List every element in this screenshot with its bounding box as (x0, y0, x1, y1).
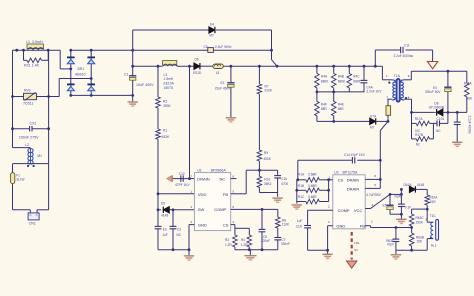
wire main vert x132 lower (132, 81, 134, 96)
wire R63B bot (411, 246, 413, 250)
capacitor C6 box (208, 48, 214, 53)
svg-text:68R: 68R (338, 107, 345, 111)
ground under C1 (127, 102, 137, 106)
wire cs gnd rail (235, 249, 278, 251)
wire R4 top (248, 228, 250, 235)
capacitor C2 (274, 238, 281, 240)
wire clamp vert (271, 30, 273, 60)
svg-text:3L1W: 3L1W (16, 178, 24, 182)
wire R7 top (258, 66, 260, 84)
svg-text:VDD: VDD (198, 192, 207, 197)
capacitor C104 (437, 120, 440, 126)
junction rail R4A (316, 65, 319, 68)
wire R1A right stub (319, 179, 328, 181)
resistor R7 (257, 84, 262, 94)
wire R1 gnd stem (296, 202, 298, 204)
op-amp U2 box (333, 175, 365, 229)
transformer T1C coil (431, 222, 433, 238)
wire VCC diagonal (371, 194, 391, 208)
wire HV rail a (133, 65, 163, 67)
svg-text:U2: U2 (334, 170, 339, 174)
svg-text:R17A: R17A (415, 117, 424, 121)
wire R1C right stub (319, 201, 328, 203)
junction D5 right (172, 208, 175, 211)
polarity dot L2 right (33, 165, 35, 167)
resistor R9 (257, 150, 262, 161)
svg-text:CS: CS (338, 177, 344, 182)
svg-text:110K: 110K (282, 223, 290, 227)
wire R1 right vert (328, 180, 330, 202)
svg-text:M7: M7 (370, 126, 375, 130)
svg-text:R1B: R1B (298, 184, 304, 188)
svg-text:R1A: R1A (298, 172, 305, 176)
ground U1 (184, 256, 194, 260)
wire R3 top (234, 228, 236, 235)
inductor L1 body (27, 44, 44, 49)
wire T1C from coil (427, 221, 433, 223)
wire earth stem (432, 50, 434, 62)
wire comp corner (277, 209, 279, 217)
svg-text:680K: 680K (321, 80, 329, 84)
svg-text:150K: 150K (416, 221, 424, 225)
svg-text:R1: R1 (163, 129, 167, 133)
svg-text:680K: 680K (353, 80, 361, 84)
junction rail C9 (261, 248, 264, 251)
svg-text:R4A: R4A (321, 75, 328, 79)
diode D7A (370, 118, 376, 124)
wire C14 row left (298, 159, 352, 161)
wire R4B bot (333, 88, 335, 92)
svg-text:E3: E3 (163, 227, 167, 231)
wire VDD (158, 193, 194, 195)
wire C14 row right (357, 159, 380, 161)
svg-text:R4F: R4F (321, 102, 327, 106)
wire out row right (443, 111, 467, 113)
junction rail drain (188, 65, 191, 68)
resistor R1 (156, 129, 161, 139)
junction clamp (270, 49, 273, 52)
wire VCC node row (390, 193, 401, 195)
svg-text:D6: D6 (195, 58, 199, 62)
capacitor C3 (170, 226, 177, 228)
wire U2 gnd rail (308, 249, 328, 251)
svg-text:FB: FB (360, 224, 365, 229)
junction C3A node (400, 193, 403, 196)
resistor R1A (306, 178, 320, 183)
wire C3 down (172, 229, 174, 250)
polarity dot T1A primary (388, 82, 390, 84)
resistor R63B (409, 233, 414, 246)
wire snub row1 c (440, 122, 448, 124)
junction D7A row (332, 120, 335, 123)
svg-text:D5: D5 (161, 202, 165, 206)
wire R9 down (258, 161, 260, 176)
svg-text:COMP: COMP (214, 207, 226, 212)
wire aux row (412, 208, 428, 210)
wire snub row2 b (430, 138, 434, 140)
svg-text:C14 47pF 1KV: C14 47pF 1KV (344, 153, 366, 157)
wire R11A bot (387, 115, 389, 121)
inductor L1 arcs (28, 48, 44, 50)
wire R3 down (234, 247, 236, 250)
diode D6 (194, 63, 200, 69)
diode BR1 D-lower-left (67, 84, 75, 90)
capacitor E1 (227, 83, 234, 87)
wire U1 GND vert (188, 225, 190, 256)
transformer T1A right coil (401, 80, 404, 100)
svg-text:NC: NC (436, 129, 441, 133)
junction C14 right (379, 159, 382, 162)
junction CX1 left (11, 127, 14, 130)
junction VDD (157, 192, 160, 195)
svg-text:4148: 4148 (417, 183, 424, 187)
ground E1 (226, 118, 236, 122)
junction drain1 (379, 178, 382, 181)
earth symbol red (427, 62, 437, 69)
svg-text:ABS10: ABS10 (75, 73, 86, 77)
svg-text:1.2R: 1.2R (225, 243, 232, 247)
wire diag to C14 (380, 121, 388, 130)
wire R63C bot (411, 226, 413, 233)
wire D5 row right (169, 209, 194, 211)
wire C11 rail left (375, 49, 400, 51)
polarity dot T1C (430, 237, 432, 239)
wire C4A top (363, 66, 365, 80)
junction C1 bottom (131, 94, 134, 97)
junction drain stub (188, 177, 191, 180)
connector CN1 (28, 213, 39, 220)
svg-text:DRAIN: DRAIN (347, 177, 360, 182)
wire U1 FB stub (231, 193, 247, 195)
svg-text:453K: 453K (263, 157, 271, 161)
wire choke bottom row (13, 163, 49, 165)
capacitor C11 (401, 47, 403, 53)
diode BR1 D-upper-right (87, 57, 95, 63)
svg-text:R31 1.4K: R31 1.4K (24, 63, 40, 67)
wire R31 right leg (47, 50, 49, 60)
junction C1 top rail (131, 49, 134, 52)
svg-text:NC: NC (176, 233, 181, 237)
capacitor C63D (393, 239, 400, 241)
wire E1 stem (230, 88, 232, 118)
junction rail R4B (332, 65, 335, 68)
wire cs gnd stem (249, 250, 251, 256)
wire U1 gnd rail (158, 249, 189, 251)
wire right to CN1 h (37, 209, 49, 211)
wire HV to T1A h (382, 79, 392, 81)
svg-text:R3: R3 (225, 238, 229, 242)
wire D61A right (415, 188, 427, 190)
wire drain stub (190, 178, 195, 180)
wire U2 drain2 stub (365, 187, 380, 189)
inductor L5 body (213, 64, 223, 69)
svg-text:E4: E4 (433, 86, 437, 90)
junction C3 rail (172, 248, 175, 251)
junction C1 rail66 (131, 65, 134, 68)
ground CS rail (244, 256, 256, 260)
svg-text:CX1: CX1 (30, 122, 37, 126)
wire R1A left stub (297, 179, 306, 181)
diode D61A (409, 186, 415, 192)
junction FB node (258, 169, 261, 172)
junction out E4 (447, 111, 450, 114)
svg-text:C1A: C1A (296, 224, 303, 228)
resistor R4E (331, 101, 336, 116)
svg-text:R3A: R3A (395, 194, 402, 198)
transformer T1A core (397, 79, 400, 102)
wire C4A bot (363, 83, 365, 92)
wire R8-C2 (277, 228, 279, 237)
wire FB top (246, 169, 259, 171)
svg-text:R2: R2 (163, 99, 167, 103)
svg-text:2.2uF 94Hv: 2.2uF 94Hv (215, 45, 232, 49)
wire CX1 row right (33, 128, 49, 130)
wire fb gnd row (259, 192, 277, 194)
wire R1B right stub (319, 189, 328, 191)
junction bridge AC1 (69, 68, 72, 71)
svg-text:7D511: 7D511 (23, 101, 33, 105)
wire T1A pin4 h (404, 98, 412, 100)
wire R4F bot (316, 116, 318, 122)
svg-text:1.5mH: 1.5mH (164, 77, 174, 81)
svg-text:CS: CS (223, 222, 229, 227)
svg-text:R4E: R4E (338, 102, 344, 106)
svg-text:L1 3.9mH: L1 3.9mH (26, 40, 43, 44)
junction aux rail (410, 249, 413, 252)
inductor L3 body (163, 61, 177, 66)
svg-text:4700: 4700 (281, 182, 288, 186)
wire U1 GND stub (189, 224, 194, 226)
wire E4 top (447, 71, 449, 87)
svg-text:C12: C12 (179, 172, 185, 176)
svg-text:150nF 275V: 150nF 275V (19, 136, 39, 140)
wire C14 vert (379, 131, 381, 189)
svg-text:910K: 910K (265, 89, 273, 93)
ground aux (391, 255, 401, 259)
wire CN1 pin2 (36, 210, 38, 213)
wire HV rail c (201, 65, 213, 67)
resistor R61A (425, 195, 430, 205)
wire R61A bot (426, 205, 428, 209)
wire AC2 vert (58, 79, 60, 97)
wire C6 rail (133, 49, 208, 51)
svg-text:RL3: RL3 (431, 243, 437, 247)
svg-text:2.2uF 400Va: 2.2uF 400Va (467, 116, 471, 134)
wire C19 down (456, 125, 458, 142)
resistor R1B (306, 188, 320, 193)
inductor L3 arcs (163, 64, 177, 66)
wire C6 rail right (213, 49, 271, 51)
ground arrow left of C12 (167, 175, 173, 182)
wire C2 down (277, 240, 279, 250)
diode BR1 D-upper-left (67, 57, 75, 63)
junction D5 left (157, 208, 160, 211)
wire R4A top (316, 66, 318, 73)
wire D5 row left (158, 209, 161, 211)
wire T1C bottom (426, 239, 428, 251)
svg-text:R16A: R16A (464, 82, 473, 86)
svg-text:FB1: FB1 (354, 241, 360, 245)
junction top rail b (22, 49, 25, 52)
wire C11 rail right (405, 49, 432, 51)
junction top rail a (15, 49, 18, 52)
capacitor E4 (444, 87, 451, 91)
junction bridge + left (69, 49, 72, 52)
wire R4C top (348, 66, 350, 73)
junction rail E1 (230, 65, 233, 68)
svg-text:C6: C6 (204, 45, 208, 49)
wire vcc gnd stem (400, 214, 402, 219)
resistor R8 (276, 217, 281, 228)
wire C12 row (172, 178, 189, 180)
svg-text:15K: 15K (416, 240, 423, 244)
wire choke top (13, 147, 31, 149)
junction sec rail E4 (447, 70, 450, 73)
wire R7-R9 (258, 94, 260, 150)
junction C3A bottom (400, 213, 403, 216)
resistor R63C (409, 214, 414, 226)
junction R1B left (295, 189, 298, 192)
junction U2 gnd rail (326, 249, 329, 252)
capacitor C1A (304, 226, 311, 228)
wire U2 COMP wire (308, 209, 333, 211)
resistor R4A (315, 73, 320, 88)
junction bridge AC2 (90, 77, 93, 80)
svg-text:51R: 51R (430, 200, 437, 204)
wire R1 down (157, 139, 159, 226)
svg-text:COMP: COMP (338, 208, 350, 213)
wire CN1 pin1 (29, 210, 31, 213)
svg-text:2.2nF 1KV: 2.2nF 1KV (367, 90, 383, 94)
wire CS row (235, 227, 249, 229)
junction mid rail a (316, 91, 319, 94)
wire fuse to CN1 h (13, 209, 31, 211)
svg-text:L2: L2 (25, 143, 29, 147)
wire out row left (412, 111, 436, 113)
resistor R4 (247, 235, 252, 247)
svg-text:453K: 453K (163, 104, 172, 108)
svg-text:BP1175A: BP1175A (343, 170, 359, 174)
resistor R4B (331, 73, 336, 88)
wire aux gnd stem (395, 250, 397, 254)
junction varistor left (11, 95, 14, 98)
resistor R4F (315, 101, 320, 116)
wire FB node right (259, 169, 277, 171)
svg-text:68R: 68R (321, 107, 328, 111)
wire R31 stub right (42, 59, 49, 61)
svg-text:M1: M1 (38, 154, 43, 158)
wire snub right vert (447, 112, 449, 123)
svg-text:VCC: VCC (354, 208, 363, 213)
wire D4 rail (133, 29, 209, 31)
svg-text:1.2R: 1.2R (241, 243, 248, 247)
junction FB aux (410, 226, 413, 229)
svg-text:FB: FB (223, 192, 228, 197)
svg-text:C104: C104 (437, 117, 445, 121)
wire left to fuse (12, 164, 14, 173)
junction COMP (261, 208, 264, 211)
wire R4A bot (316, 88, 318, 92)
capacitor C14 (352, 157, 354, 163)
svg-text:GND: GND (198, 222, 207, 227)
wire E3 down (157, 229, 159, 250)
svg-text:47PF 1KV: 47PF 1KV (175, 183, 190, 187)
capacitor CX1 (30, 126, 32, 131)
junction gnd rail (188, 248, 191, 251)
svg-text:R4C: R4C (353, 75, 360, 79)
svg-text:L5: L5 (216, 71, 220, 75)
ground FB divider (272, 198, 282, 202)
wire AC L top rail (13, 49, 61, 51)
junction rail R4 (248, 248, 251, 251)
junction varistor right (47, 95, 50, 98)
wire bridge left column (70, 50, 72, 95)
resistor R2 (156, 97, 161, 108)
wire fuse to CN1 v (12, 184, 14, 210)
svg-text:R63C: R63C (416, 216, 425, 220)
svg-text:EE10A: EE10A (164, 81, 175, 85)
junction bridge + right (90, 49, 93, 52)
wire C9 v (261, 209, 263, 229)
svg-text:T1C: T1C (430, 214, 437, 218)
svg-text:D7A: D7A (370, 114, 377, 118)
junction R1B right (327, 189, 330, 192)
wire bridge + rail (71, 49, 133, 51)
wire R4F top (316, 92, 318, 101)
wire main vert x132 (132, 30, 134, 75)
wire right to CN1 v (48, 164, 50, 210)
svg-text:150TS: 150TS (164, 86, 175, 90)
svg-text:C11: C11 (404, 44, 410, 48)
wire FB to aux (370, 226, 372, 228)
wire C11 up (374, 50, 376, 66)
wire C1 gnd stem (132, 95, 134, 101)
svg-text:10uF 400V: 10uF 400V (136, 83, 154, 87)
wire C63D down (395, 242, 397, 251)
wire E4 down (447, 92, 449, 112)
svg-text:R4: R4 (241, 238, 245, 242)
resistor R3 (233, 235, 238, 247)
varistor RV1 (24, 93, 37, 101)
wire T1A pin2 h (388, 98, 392, 100)
wire E5 down (389, 210, 391, 214)
junction rail L3-R2 (157, 65, 160, 68)
wire bridge right column (90, 50, 92, 95)
junction D61A left (400, 188, 403, 191)
diode D5 (163, 207, 169, 213)
wire aux vert (411, 209, 413, 214)
svg-text:R1C: R1C (298, 195, 305, 199)
inductor L2 common-mode choke (28, 148, 33, 164)
wire fb gnd stem (277, 193, 279, 197)
red arrow down (347, 261, 357, 268)
svg-text:BR1: BR1 (78, 67, 85, 71)
capacitor C4A (361, 80, 368, 82)
svg-text:R10: R10 (264, 177, 270, 181)
junction VCC node (389, 193, 392, 196)
wire snub left vert (411, 112, 413, 138)
wire HV rail b (177, 65, 194, 67)
svg-text:22uF 450V: 22uF 450V (215, 87, 231, 91)
junction rail R4C (348, 65, 351, 68)
capacitor C19 (454, 122, 461, 124)
ground VCC (396, 219, 406, 223)
svg-text:ES1D: ES1D (193, 71, 202, 75)
wire bridge - rail (71, 94, 133, 96)
svg-text:0.68R: 0.68R (308, 195, 317, 199)
transformer T1C core (436, 219, 439, 240)
svg-text:330nF: 330nF (281, 242, 290, 246)
